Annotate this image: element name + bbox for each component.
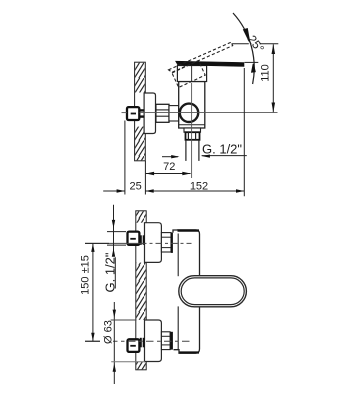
inlet nut behind wall — [127, 107, 139, 120]
bottom inlet centerline (dashed) — [85, 340, 192, 342]
dimension 72 — [146, 161, 191, 175]
top inlet nut — [128, 232, 144, 245]
handle hub — [177, 66, 206, 82]
escutcheon flange (side) — [144, 93, 155, 134]
wall thread between nut and flange — [140, 110, 145, 116]
dimension 152 — [145, 180, 244, 192]
union connector between flange and body — [156, 104, 179, 122]
dimension G 1/2 (thread) — [102, 205, 126, 293]
bottom inlet nut — [128, 338, 144, 352]
top inlet flange — [145, 223, 162, 263]
mixer body (side) — [179, 82, 205, 129]
oval lever knob (front) — [179, 276, 247, 307]
extension line nut left face — [124, 121, 126, 195]
outlet pipe — [186, 140, 199, 161]
extension line lever tip right — [243, 68, 245, 196]
label 25deg — [245, 33, 267, 56]
dimension 150 +-15 — [80, 243, 110, 341]
dimension 25 — [103, 180, 142, 192]
horizontal centerline — [122, 112, 278, 114]
leader G 1/2 top view — [162, 141, 247, 158]
svg-text:110: 110 — [260, 64, 272, 82]
svg-text:Ø 63: Ø 63 — [103, 320, 115, 344]
svg-text:G. 1/2": G. 1/2" — [202, 141, 242, 156]
svg-text:150 ±15: 150 ±15 — [80, 255, 92, 295]
wall section bottom view — [136, 211, 146, 370]
lever handle (solid, horizontal) — [176, 61, 244, 66]
top inlet centerline (dashed) — [85, 242, 192, 244]
25deg swing arc — [233, 13, 255, 84]
extension line lever top — [245, 61, 259, 63]
dimension dia 63 (flange) — [100, 302, 145, 384]
mixer body bar (front) — [173, 230, 200, 353]
vertical centerline of outlet — [191, 83, 193, 178]
svg-text:72: 72 — [163, 161, 175, 173]
svg-text:25: 25 — [129, 180, 141, 192]
svg-text:152: 152 — [190, 180, 208, 192]
extension line wall face — [144, 161, 146, 195]
dimension 110 — [260, 44, 276, 112]
cartridge circle — [180, 104, 198, 122]
bottom inlet flange — [145, 320, 162, 362]
extension line raised lever tip — [232, 43, 279, 45]
wall section (hatched strip) — [135, 62, 146, 161]
outlet threaded nipple G1/2 — [186, 132, 200, 140]
top union connector — [161, 233, 173, 253]
outlet step — [184, 128, 201, 132]
lever handle raised 25deg (dashed) — [169, 41, 240, 88]
bottom union connector — [161, 332, 173, 350]
